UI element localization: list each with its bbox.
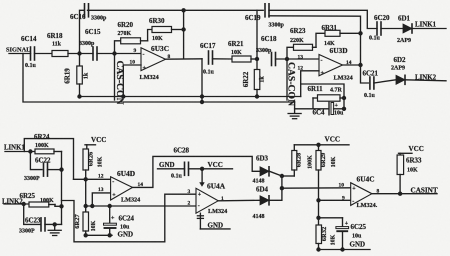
- resistor R27 (6R27): [83, 206, 89, 235]
- wire VCC bar far right: [399, 152, 413, 154]
- junction C28 VCC row: [200, 167, 204, 171]
- label LM324 for U3D: [334, 75, 353, 82]
- value 1k for R19 rotated: [84, 72, 90, 79]
- label 6C22: [35, 157, 51, 165]
- label LM324 for U4D: [121, 197, 140, 204]
- capacitor C15 (6C15): [93, 47, 97, 60]
- resistor R31 (6R31): [325, 30, 361, 36]
- junction R33 output: [398, 192, 402, 196]
- value 4148 for D3: [253, 179, 265, 185]
- wire C28 to VCC: [189, 168, 233, 170]
- wire VCC stem left: [86, 145, 88, 149]
- net label LINK2 bottom: [2, 198, 23, 205]
- wire D3 to junction column: [270, 171, 282, 176]
- value 0.1u for C21: [364, 93, 376, 99]
- junction R32 bottom: [316, 247, 320, 251]
- label 6D1: [398, 15, 411, 23]
- value 0.1u for C14: [25, 63, 37, 69]
- pin 9 label: [134, 48, 137, 54]
- value 3300p for C16: [91, 16, 107, 22]
- label 6R19 rotated: [64, 68, 72, 84]
- value 3300p for C18: [256, 48, 272, 54]
- wire U4A ground stem: [197, 213, 203, 229]
- value 100K for R24: [35, 143, 49, 149]
- value 1k for R22 rotated: [260, 76, 266, 83]
- wire bottom GND node: [319, 249, 371, 251]
- wire R18 to C15: [68, 53, 93, 55]
- wire C22 loop left: [30, 152, 42, 170]
- junction D4 column mid: [280, 186, 284, 190]
- node CAS-CON stage1 junction: [112, 51, 116, 55]
- value 4148 for D4: [253, 214, 265, 220]
- capacitor C23 (6C23): [41, 218, 45, 231]
- label 6C4: [313, 109, 326, 117]
- diode D3 (6D3): [260, 167, 269, 176]
- capacitor C20 (6C20): [377, 22, 381, 35]
- junction R19 bus: [77, 94, 81, 98]
- label 6C18: [261, 35, 277, 43]
- wire U4C pin9 row: [319, 199, 351, 201]
- pin 12 label U4D: [98, 174, 104, 180]
- wire D4 up to D3 junction: [270, 176, 282, 200]
- wire C17 to R21: [213, 58, 233, 60]
- wire outer ground bus: [23, 54, 295, 103]
- junction at feedback column top: [181, 8, 185, 12]
- net label GND left of C28: [159, 161, 175, 169]
- pin 12 label: [298, 65, 304, 71]
- junction C24 rail: [108, 204, 112, 208]
- net label GND for C24: [118, 231, 134, 239]
- node CAS-CON stage2 junction: [285, 57, 289, 61]
- pin 1 label: [221, 196, 224, 202]
- net label GND right: [350, 241, 366, 249]
- wire U3C pin10 to bus: [123, 65, 141, 97]
- wire U3C output: [166, 58, 203, 60]
- ground symbol bottom left: [48, 230, 61, 235]
- label 6C24: [119, 215, 135, 223]
- label 6C15: [85, 28, 101, 36]
- junction output column outer bus: [200, 100, 204, 104]
- plus sign U4D: [112, 193, 116, 199]
- value 10K for R29 rotated: [331, 156, 337, 167]
- value 2AP9 for D1: [397, 38, 411, 44]
- label 6R23: [290, 27, 306, 35]
- diode D1 (6D1): [403, 24, 412, 33]
- value 10K for R26 rotated: [98, 156, 104, 167]
- ground symbol top section: [288, 114, 301, 119]
- label 6R28 rotated: [296, 152, 303, 167]
- junction R30 to feedback column: [181, 27, 185, 31]
- plus sign U3D: [321, 71, 325, 77]
- resistor R33 (6R33): [397, 153, 404, 193]
- capacitor C19 (6C19): [265, 4, 269, 17]
- wire C15 to U3C pin9: [97, 53, 141, 55]
- value 270K for R20: [118, 31, 132, 37]
- label LM324 for U4C: [357, 202, 378, 209]
- junction pin10 bus: [121, 94, 125, 98]
- pin 9 label U4C: [342, 196, 345, 202]
- resistor R18 (6R18): [52, 51, 68, 57]
- junction C24 bottom: [108, 233, 112, 237]
- value 0.1u for C17: [203, 70, 215, 76]
- plus mark C25: [345, 221, 349, 227]
- wire D1 to LINK1: [413, 28, 447, 30]
- plus sign U4C: [352, 186, 356, 192]
- label 6D2: [394, 56, 407, 64]
- net label SIGNAL: [6, 47, 31, 54]
- pin 10 label U4C: [339, 183, 345, 189]
- wire CAS-CON stage1 vertical: [114, 54, 116, 101]
- wire LINK1 input: [5, 151, 35, 153]
- resistor R25 (6R25): [29, 202, 62, 207]
- label 6R22 rotated: [242, 71, 250, 87]
- junction R26 pin12 row: [84, 177, 88, 181]
- label 6R27 rotated: [74, 214, 81, 229]
- wire ground stem top section: [294, 102, 296, 113]
- label 6R20: [118, 21, 134, 29]
- resistor R21 (6R21): [232, 56, 257, 62]
- wire inner ground bus: [80, 96, 301, 98]
- junction R11 right: [342, 96, 346, 100]
- junction R26 rail: [84, 204, 88, 208]
- value 10K for R30: [152, 36, 163, 42]
- wire C23 left: [24, 204, 40, 224]
- label 6R32 rotated: [321, 227, 328, 241]
- minus sign U3D: [321, 58, 323, 64]
- resistor R23 (6R23): [287, 44, 316, 59]
- junction R29 pin9: [316, 198, 320, 202]
- net label VCC right: [325, 136, 341, 144]
- label 6R24: [34, 133, 50, 141]
- wire SIGNAL input: [9, 53, 31, 55]
- label 6R11: [308, 85, 324, 93]
- label 6C16: [70, 13, 86, 21]
- pin 13 label: [298, 54, 304, 60]
- minus sign U3C: [143, 52, 145, 58]
- net label VCC mid: [208, 161, 223, 169]
- value 11k for R18: [52, 42, 62, 48]
- label 6C19: [245, 14, 261, 22]
- label 6C21: [363, 70, 379, 78]
- value 0.1u for C20: [369, 36, 381, 42]
- capacitor C22 (6C22): [44, 163, 48, 176]
- resistor R22 (6R22): [254, 59, 259, 97]
- wire ground stem bottom left: [54, 224, 56, 229]
- label 6C23: [25, 217, 41, 225]
- resistor R19 (6R19): [77, 54, 83, 97]
- plus mark C4: [335, 103, 339, 109]
- wire output down to outer bus: [201, 59, 203, 102]
- op-amp U3C (6U3C): [141, 48, 166, 71]
- wire U4A output: [218, 199, 260, 202]
- capacitor C21 (6C21): [370, 77, 374, 89]
- pin 8 label: [168, 54, 171, 60]
- net label LINK1 bottom: [4, 145, 25, 152]
- node A junction: [77, 51, 81, 55]
- resistor R26 (6R26): [83, 149, 89, 206]
- value 3300p for C15: [79, 41, 95, 47]
- label 6R33: [406, 157, 422, 165]
- resistor R28 (6R28): [292, 145, 297, 176]
- wire R27 C24 bottom node: [86, 234, 112, 236]
- capacitor C25 (6C25) electrolytic: [336, 218, 349, 250]
- pin 14 label: [346, 60, 352, 66]
- wire bottom rail: [86, 205, 196, 207]
- wire C20 to D1: [381, 28, 403, 30]
- junction LINK2 node: [22, 202, 26, 206]
- junction R22 bottom bus: [255, 94, 259, 98]
- minus sign U4D: [112, 180, 114, 186]
- capacitor C14 (6C14): [31, 47, 35, 60]
- op-amp U3D (6U3D): [319, 55, 343, 76]
- label LM324 for U4A: [208, 208, 227, 215]
- junction R29 top: [316, 143, 320, 147]
- wire VCC bar right: [294, 144, 349, 146]
- wire node2 riser to top wire: [256, 10, 258, 59]
- wire U4D pin12 row: [74, 178, 111, 180]
- wire LINK1 bypass route: [24, 139, 73, 180]
- wire C16 to feedback column: [88, 9, 184, 11]
- label 6C14: [21, 35, 37, 43]
- junction C25 bottom: [340, 247, 344, 251]
- resistor R24 (6R24): [35, 149, 62, 154]
- op-amp U4C (6U4C): [351, 183, 372, 206]
- value 3300P for C22: [24, 176, 40, 182]
- wire GND to C28: [158, 168, 185, 170]
- pin 3 label: [188, 189, 191, 195]
- label 6C25: [351, 223, 367, 231]
- wire C14 to R18: [35, 53, 53, 55]
- wire top to C19: [184, 9, 264, 11]
- wire C19 feedback to U3D output: [269, 16, 361, 65]
- wire summing column: [61, 152, 63, 225]
- capacitor C4 (6C4): [295, 102, 344, 115]
- value 14K for R31: [324, 41, 335, 47]
- wire R29 row to C25: [319, 217, 343, 219]
- diode D2 (6D2): [396, 75, 405, 84]
- wire U3D pin12 to bus riser: [301, 71, 319, 97]
- label 6C17: [200, 42, 216, 50]
- label 6C20: [374, 14, 390, 22]
- label LM324 for U3C: [140, 74, 159, 81]
- value 10u for C4: [334, 111, 344, 117]
- op-amp U4A (6U4A): [196, 188, 218, 213]
- plus sign U3C: [143, 66, 147, 72]
- wire C19 to D1 branch corner: [269, 10, 377, 28]
- label 6R31: [322, 24, 338, 32]
- resistor R11 (6R11): [313, 95, 344, 101]
- capacitor C16 (6C16): [85, 4, 89, 17]
- value 10u for C25: [352, 234, 362, 240]
- capacitor C28 (6C28): [185, 162, 189, 175]
- label 6D3: [256, 155, 269, 163]
- label 6U4A: [207, 182, 226, 191]
- pin 10 label: [130, 60, 136, 66]
- wire R20 to R30: [148, 30, 152, 41]
- value 4.7R for R11: [330, 88, 343, 94]
- pin 14 label U4D: [138, 182, 144, 188]
- net label CASINT: [411, 187, 438, 195]
- value 100K for R28 rotated: [308, 155, 314, 169]
- label 6R29 rotated: [320, 152, 327, 167]
- value 3300p for C19: [269, 23, 285, 29]
- wire LINK2 input: [4, 203, 29, 205]
- label 6U3D: [330, 46, 348, 55]
- resistor R32 (6R32): [316, 225, 322, 250]
- pin 13 label U4D: [98, 187, 104, 193]
- wire C21 to D2: [374, 80, 396, 83]
- capacitor C24 (6C24) electrolytic: [104, 206, 117, 235]
- wire R11 left column: [312, 98, 314, 109]
- capacitor C18 (6C18): [272, 53, 276, 66]
- label 6U4D: [117, 169, 135, 178]
- net label LINK1: [415, 22, 437, 29]
- junction R31 feedback column: [358, 31, 362, 35]
- junction C23 ground node: [53, 222, 57, 226]
- value 220K for R23: [290, 38, 304, 44]
- junction C4 right: [342, 107, 346, 111]
- net label VCC far right: [409, 145, 424, 153]
- wire feedback column stage1: [183, 10, 185, 59]
- diode D4 (6D4): [260, 196, 269, 205]
- net label CAS-CON stage1: [114, 60, 125, 104]
- wire VCC bar left: [85, 144, 96, 146]
- pin 8 label U4C: [377, 189, 380, 195]
- junction C22 right: [59, 167, 63, 171]
- wire U3D output down to C21: [361, 65, 369, 83]
- resistor R29 (6R29): [316, 145, 321, 225]
- wire U4D output up and right: [133, 156, 261, 187]
- resistor R30 (6R30): [152, 27, 184, 33]
- label 6D4: [256, 186, 269, 194]
- plus sign U4A: [198, 192, 202, 198]
- label 6R25: [20, 192, 36, 200]
- junction R29 R32 top: [316, 216, 320, 220]
- wire U3D output: [343, 64, 361, 66]
- wire C22 to right column: [48, 169, 62, 171]
- junction LINK1 node: [28, 149, 32, 153]
- wire U4C output: [372, 193, 437, 195]
- minus sign U4A: [198, 204, 200, 210]
- wire node A up to C16: [80, 10, 84, 53]
- wire R23 to R31: [316, 33, 325, 47]
- label 6R30: [149, 17, 165, 25]
- net label LINK2: [415, 75, 437, 82]
- junction pin13 rail: [90, 204, 94, 208]
- junction U3D output column: [358, 63, 362, 67]
- label 6C28: [174, 147, 190, 155]
- node 2 junction: [255, 57, 259, 61]
- net label CAS-CON stage2: [286, 62, 297, 106]
- label 6U3C: [151, 44, 169, 53]
- wire pin12 feedback row: [301, 84, 344, 109]
- label 6R21: [228, 40, 244, 48]
- power label VCC left: [91, 136, 106, 144]
- label 6R18: [47, 32, 63, 40]
- value 10u for C24: [120, 225, 130, 231]
- value 10K for R32 rotated: [331, 234, 337, 245]
- junction output column inner bus: [200, 94, 204, 98]
- wire D2 to LINK2: [406, 80, 447, 81]
- wire U4D pin13 row: [92, 193, 110, 206]
- junction R27 bottom: [84, 233, 88, 237]
- capacitor C17 (6C17): [209, 51, 213, 64]
- value 10K for R33: [407, 168, 418, 174]
- wire CAS-CON stage2 vertical: [286, 59, 288, 100]
- label 6R26 rotated: [88, 151, 95, 166]
- wire U4A GND: [200, 228, 230, 230]
- wire loop to U4A pin3: [62, 194, 197, 242]
- value 100K for R25: [40, 198, 54, 204]
- wire C18 to U3D pin13: [276, 58, 320, 60]
- value 3300P for C23: [19, 229, 35, 235]
- op-amp U4D (6U4D): [111, 177, 133, 200]
- plus mark C24: [111, 216, 115, 222]
- junction D3 column: [280, 174, 295, 178]
- label 6U4C: [357, 175, 375, 184]
- wire diode junction to U4C pin10: [282, 187, 351, 189]
- pin 2 label: [188, 201, 191, 207]
- value 2AP9 for D2: [391, 66, 405, 72]
- value 10K for R21: [231, 50, 242, 56]
- minus sign U4C: [352, 199, 354, 205]
- net label GND U4A: [208, 222, 224, 230]
- value 0.1u for C28: [171, 174, 183, 180]
- value 10K for R27 rotated: [91, 220, 97, 231]
- wire C23 to ground node: [45, 223, 62, 225]
- junction R25 right column: [59, 204, 63, 208]
- wire VCC down to U4A: [200, 169, 205, 186]
- resistor R20 (6R20): [115, 38, 148, 54]
